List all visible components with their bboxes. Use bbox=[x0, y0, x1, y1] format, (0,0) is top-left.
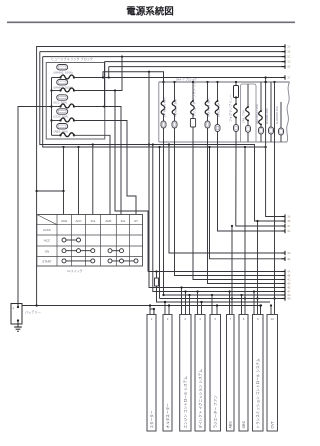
off-page arrow 3A bbox=[282, 214, 291, 218]
svg-text:3C: 3C bbox=[287, 229, 290, 233]
title underline rule bbox=[7, 21, 295, 23]
off-page arrow 3E bbox=[282, 257, 291, 261]
battery label バッテリー bbox=[25, 310, 41, 315]
fusible link FL4 element bbox=[52, 118, 76, 122]
svg-text:1B: 1B bbox=[287, 50, 290, 54]
relay R2 (ST cut relay) bbox=[155, 278, 159, 286]
svg-text:(IG1, 50A): (IG1, 50A) bbox=[54, 101, 67, 105]
fuse box label 54A-7 ブロック bbox=[176, 76, 197, 81]
contacts START row right bbox=[108, 259, 138, 263]
wire drop x159.5 bbox=[158, 146, 160, 299]
svg-text:+: + bbox=[12, 307, 14, 311]
wire FL3 output bbox=[74, 105, 121, 214]
svg-text:3B: 3B bbox=[287, 219, 290, 223]
svg-text:エンジン コントロール システム: エンジン コントロール システム bbox=[183, 376, 188, 429]
fusible link FL5 element bbox=[52, 133, 76, 137]
fuse F5 (ETCS 15A) bbox=[215, 82, 220, 144]
wire feed to box6 bbox=[231, 226, 233, 315]
system box 4 (ダイレクト イグニッション システム) bbox=[195, 315, 205, 432]
wire FL2 output bbox=[74, 57, 122, 92]
svg-text:IGスイッチ: IGスイッチ bbox=[67, 268, 82, 273]
wire ACC feed bbox=[78, 147, 80, 215]
svg-text:4C: 4C bbox=[287, 278, 290, 282]
svg-text:バッテリー: バッテリー bbox=[25, 310, 41, 315]
fuse F3 (ラジエーター ファン リレー) bbox=[190, 82, 195, 144]
svg-text:SRS: SRS bbox=[242, 421, 246, 429]
off-page arrow 1D bbox=[282, 59, 291, 63]
wire box feed stubs bbox=[149, 286, 272, 314]
svg-text:ラジエーター ファン リレー: ラジエーター ファン リレー bbox=[191, 78, 196, 117]
wire fuse out F4 bbox=[208, 142, 286, 284]
wire AM1 feed bbox=[63, 147, 65, 215]
off-page arrow 1E bbox=[282, 64, 291, 68]
fuse F1 (EF-MAIN 40A) bbox=[161, 82, 166, 144]
contacts ACC row bbox=[62, 238, 81, 242]
fusible link FL3 element bbox=[52, 104, 76, 108]
svg-text:3E: 3E bbox=[287, 257, 290, 261]
svg-text:AM2: AM2 bbox=[105, 219, 111, 223]
fusible link FL3 rating label bbox=[54, 101, 67, 105]
off-page arrow 3F bbox=[282, 224, 291, 228]
svg-text:ACC: ACC bbox=[75, 219, 81, 223]
off-page arrow 1C bbox=[282, 54, 291, 58]
system box 8 (SRS) bbox=[239, 315, 248, 432]
fuse F2 (POWER 30A) bbox=[172, 82, 177, 144]
wire FL1 output to bus bbox=[74, 76, 285, 78]
svg-text:CVT: CVT bbox=[271, 421, 275, 429]
fuse F4 label bbox=[206, 97, 210, 117]
contacts ON row left bbox=[62, 249, 95, 253]
system box 9 (トランスミッション コントロール システム) bbox=[253, 315, 264, 432]
svg-text:4B: 4B bbox=[287, 274, 290, 278]
svg-text:フォグランプ リレー: フォグランプ リレー bbox=[228, 94, 233, 122]
wire feed to box8 bbox=[256, 220, 258, 315]
fusible link FL2 element bbox=[52, 88, 76, 92]
wire bus B2 bbox=[40, 51, 285, 53]
fusible link FL1 name oval bbox=[57, 65, 68, 70]
wire drop x209.5 bbox=[208, 146, 285, 259]
fuse F9 label bbox=[275, 106, 279, 124]
fusible link FL2 name oval bbox=[57, 80, 68, 85]
wire riser to B5 bbox=[108, 67, 110, 78]
fuse F1 feed from above bbox=[163, 72, 165, 85]
wire bus B4 bbox=[105, 61, 286, 63]
fuse F2 label bbox=[173, 98, 177, 117]
svg-text:IG1: IG1 bbox=[91, 219, 96, 223]
wire bus U1 bbox=[40, 52, 285, 221]
svg-text:ACC: ACC bbox=[44, 239, 50, 243]
wire fuse out F3 bbox=[193, 142, 285, 280]
svg-text:AM1: AM1 bbox=[61, 219, 67, 223]
svg-text:START: START bbox=[42, 259, 51, 263]
wire fuse F8 long drop bbox=[0, 0, 1, 1]
svg-text:電源系統図: 電源系統図 bbox=[126, 6, 174, 18]
off-page arrow 3C bbox=[282, 229, 291, 233]
svg-text:3F: 3F bbox=[287, 224, 290, 228]
system box 3 (オルタネーター) bbox=[163, 315, 172, 432]
wire bus U2 bbox=[43, 57, 267, 149]
fuse F3 label bbox=[191, 78, 196, 117]
wire bus L1 bbox=[148, 270, 285, 272]
fusible link FL1 rating label bbox=[54, 70, 73, 74]
svg-text:ON: ON bbox=[45, 249, 49, 253]
fuse box inner sub-box bbox=[241, 84, 257, 142]
fuse box left edge bbox=[158, 82, 160, 142]
fuse F9 (HORN 15A) bbox=[279, 102, 284, 142]
wire fuse out F2 bbox=[175, 142, 286, 276]
wire fuse out F5 bbox=[218, 142, 286, 231]
off-page arrow 1B bbox=[282, 49, 291, 53]
svg-text:1A: 1A bbox=[287, 45, 290, 49]
table row labels bbox=[42, 228, 51, 263]
wire riser through box B bbox=[273, 82, 275, 315]
wire drop x149 bbox=[148, 72, 285, 288]
wire battery bus bbox=[22, 304, 262, 306]
wire FL5 output to AM2 bbox=[74, 135, 110, 214]
off-page arrow 4H bbox=[282, 296, 291, 300]
svg-text:ラジエーター ファン: ラジエーター ファン bbox=[213, 395, 218, 429]
svg-text:DEFOG H 15A: DEFOG H 15A bbox=[255, 104, 259, 124]
wire riser through box A bbox=[264, 78, 285, 217]
fusible link block label bbox=[51, 56, 93, 61]
wire relay out bbox=[231, 142, 285, 227]
contacts START row left bbox=[62, 259, 95, 263]
off-page arrow 4D bbox=[282, 281, 291, 285]
wire bus L8 bbox=[160, 298, 286, 300]
fuse F7 (DEFOG 15A) bbox=[259, 82, 264, 142]
wire FL2 branch to bus bbox=[115, 91, 148, 272]
off-page arrow 4G bbox=[282, 293, 291, 297]
fuse F1 label bbox=[162, 97, 166, 117]
off-page arrow 1F bbox=[282, 75, 291, 79]
wire FL4 output bbox=[74, 121, 136, 215]
svg-text:1E: 1E bbox=[287, 65, 290, 69]
system box 6 (エンジン コントロール システム) bbox=[180, 315, 191, 432]
system box 2 (スターター) bbox=[147, 315, 156, 432]
fusible link FL4 name oval bbox=[57, 109, 68, 114]
svg-text:4A: 4A bbox=[287, 270, 290, 274]
svg-text:ダイレクト イグニッション システム: ダイレクト イグニッション システム bbox=[197, 369, 202, 429]
wire AM1 jog bbox=[35, 190, 64, 192]
fuse F4 (RDI FAN 30A) bbox=[205, 82, 210, 144]
ignition switch table grid bbox=[37, 215, 143, 267]
table caption イグニッションスイッチ bbox=[67, 268, 82, 273]
svg-text:3D: 3D bbox=[287, 251, 290, 255]
wire FL1 sub-branch bbox=[103, 71, 164, 85]
off-page arrow 3D bbox=[282, 251, 291, 255]
svg-text:(CDS, 50A): (CDS, 50A) bbox=[54, 115, 69, 119]
node: block input bus bbox=[50, 78, 52, 136]
wire bus L11 bbox=[150, 306, 154, 315]
svg-text:RDI FAN 30A: RDI FAN 30A bbox=[206, 97, 210, 117]
svg-text:トランスミッション コントロール システム: トランスミッション コントロール システム bbox=[255, 358, 260, 429]
system box 5 (ラジエーター ファン) bbox=[210, 315, 221, 432]
fuse F5 label bbox=[216, 101, 220, 117]
wire riser to B4 bbox=[104, 62, 106, 107]
wire bus L9 bbox=[157, 286, 271, 303]
off-page arrow 4E bbox=[282, 285, 291, 289]
svg-text:4F: 4F bbox=[287, 290, 290, 294]
svg-text:4G: 4G bbox=[287, 293, 290, 297]
wire fuse out F1 bbox=[162, 142, 285, 296]
svg-text:(ABS, 60A): (ABS, 60A) bbox=[54, 129, 68, 133]
fuse box bottom edge bbox=[159, 141, 287, 143]
fusible link FL3 name oval bbox=[57, 95, 68, 100]
fuse F6 label bbox=[242, 110, 246, 123]
svg-text:4E: 4E bbox=[287, 286, 290, 290]
off-page arrow 3B bbox=[282, 219, 291, 223]
system box 7 (ABS) bbox=[227, 315, 235, 432]
fuse box torn right edge bbox=[287, 82, 290, 142]
off-page arrow 4C bbox=[282, 277, 291, 281]
svg-text:1C: 1C bbox=[287, 55, 290, 59]
svg-text:10: 10 bbox=[271, 317, 275, 321]
fusible link FL2 rating label bbox=[54, 85, 73, 89]
svg-text:3A: 3A bbox=[287, 215, 290, 219]
fuse F8 (DOME 7.5A) bbox=[269, 82, 274, 142]
wire IG1 feed bbox=[92, 145, 94, 215]
svg-text:(MAIN1, 100A): (MAIN1, 100A) bbox=[54, 70, 73, 74]
wire bus B5 bbox=[109, 66, 285, 68]
svg-text:ヒュージブル リンク ブロック: ヒュージブル リンク ブロック bbox=[51, 56, 93, 61]
relay R1 fog lamp relay bbox=[234, 82, 239, 142]
wire battery positive feed bbox=[18, 107, 52, 308]
fuse F6 (TAIL 7.5A) bbox=[246, 84, 251, 142]
fusible link FL5 name oval bbox=[57, 124, 68, 129]
off-page arrow 4A bbox=[282, 269, 291, 273]
system box 10 (CVT) bbox=[267, 315, 278, 432]
wire bus B1 (battery line to off-page) bbox=[37, 47, 285, 306]
fusible link FL5 rating label bbox=[54, 129, 68, 133]
ground symbol bbox=[14, 321, 22, 332]
svg-text:IG2: IG2 bbox=[121, 219, 126, 223]
off-page arrow 4F bbox=[282, 289, 291, 293]
svg-text:ETCS 15A: ETCS 15A bbox=[216, 101, 220, 117]
relay R1 label フォグランプ リレー bbox=[228, 94, 233, 122]
fuse F8 label bbox=[265, 108, 269, 124]
svg-text:ST: ST bbox=[134, 219, 138, 223]
battery BAT bbox=[11, 304, 22, 325]
svg-text:S-HORN 15A: S-HORN 15A bbox=[275, 106, 279, 124]
wire drop x152.8 bbox=[152, 143, 285, 291]
wire bus B3 bbox=[43, 55, 285, 57]
svg-text:TAIL 7.5A: TAIL 7.5A bbox=[242, 110, 246, 123]
wire mini relay feed bbox=[156, 272, 158, 279]
fuse box top bus bbox=[159, 81, 290, 83]
svg-text:EF-MAIN 40A: EF-MAIN 40A bbox=[162, 97, 166, 117]
off-page arrow 4B bbox=[282, 273, 291, 277]
fusible link block outline bbox=[46, 63, 105, 140]
svg-text:1D: 1D bbox=[287, 60, 290, 64]
contacts ON row right bbox=[108, 249, 124, 253]
svg-text:LOCK: LOCK bbox=[43, 228, 51, 232]
svg-text:POWER 30A: POWER 30A bbox=[173, 98, 177, 117]
svg-text:スターター: スターター bbox=[149, 410, 154, 428]
svg-text:4H: 4H bbox=[287, 297, 290, 301]
svg-text:オルタネーター: オルタネーター bbox=[165, 403, 170, 429]
fusible link FL4 rating label bbox=[54, 115, 69, 119]
fusible link FL1 element bbox=[52, 75, 76, 79]
svg-text:4D: 4D bbox=[287, 282, 290, 286]
svg-text:ABS: ABS bbox=[229, 421, 233, 429]
off-page arrow 1A bbox=[282, 44, 291, 48]
svg-text:1F: 1F bbox=[287, 76, 290, 80]
table column headers bbox=[61, 219, 138, 223]
wire branch x245 bbox=[244, 147, 246, 315]
fuse F7 label bbox=[255, 104, 259, 124]
wire drop x169 bbox=[168, 143, 285, 253]
